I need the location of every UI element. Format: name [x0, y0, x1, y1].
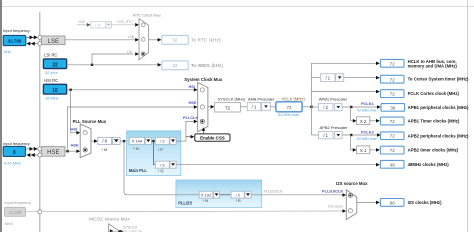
svg-text:12.288: 12.288	[9, 210, 22, 215]
svg-text:I2S clocks (MHz): I2S clocks (MHz)	[408, 200, 442, 205]
wire feed to PLLI2S (vertical)	[124, 141, 177, 195]
svg-text:Main PLL: Main PLL	[129, 168, 148, 173]
svg-text:/ 8: / 8	[102, 139, 107, 144]
RTC clock mux	[139, 19, 149, 60]
svg-text:PLLI2S: PLLI2S	[178, 201, 192, 206]
svg-text:X 192: X 192	[201, 193, 212, 198]
svg-text:HSI: HSI	[71, 127, 78, 132]
wire CKIN to pin	[25, 211, 37, 213]
svg-text:APB2 peripheral clocks (MHz): APB2 peripheral clocks (MHz)	[408, 133, 469, 138]
PLL source mux shape	[80, 124, 91, 158]
svg-text:32: 32	[173, 63, 178, 68]
wire bus to APB1	[312, 106, 319, 108]
LSE input frequency box	[3, 35, 26, 45]
pin I2S_CKIN	[38, 210, 42, 214]
wire divider to RTC mux	[111, 24, 136, 26]
svg-text:16: 16	[52, 88, 58, 94]
AHB prescaler dropdown	[247, 103, 260, 111]
wire bus to APB2	[312, 134, 319, 136]
svg-text:HSE: HSE	[189, 100, 197, 105]
svg-text:48MHz clocks (MHz): 48MHz clocks (MHz)	[408, 162, 450, 167]
svg-text:72: 72	[286, 105, 292, 110]
wire into MCO2 mux	[110, 229, 114, 232]
svg-text:8: 8	[13, 150, 16, 156]
svg-text:/ P: / P	[158, 147, 163, 152]
svg-text:LSE: LSE	[48, 39, 59, 45]
svg-text:84 MHz max: 84 MHz max	[357, 137, 377, 141]
system clock mux shape	[198, 83, 208, 132]
svg-text:72: 72	[390, 148, 395, 153]
svg-text:Ext clock: Ext clock	[328, 205, 343, 209]
svg-text:To Cortex System timer (MHz): To Cortex System timer (MHz)	[408, 76, 469, 81]
top panel border	[2, 6, 474, 7]
svg-text:APB1 Prescaler: APB1 Prescaler	[319, 96, 348, 101]
svg-text:32: 32	[52, 63, 58, 69]
wire X1 to output	[370, 149, 377, 151]
pin OSC32_OUT	[38, 42, 42, 46]
svg-text:HCLK (MHz): HCLK (MHz)	[282, 96, 306, 101]
wire HSE up to system mux	[68, 107, 195, 151]
wire to cortex prescaler	[312, 77, 321, 79]
svg-text:72: 72	[390, 61, 395, 66]
pin OSC32_IN	[38, 35, 42, 39]
svg-text:SYSCLK (MHz): SYSCLK (MHz)	[218, 96, 246, 101]
svg-text:APB1 Timer clocks (MHz): APB1 Timer clocks (MHz)	[408, 119, 460, 124]
svg-text:HSI: HSI	[189, 84, 196, 89]
wire PLLCLK to system mux	[176, 121, 194, 141]
junction PCLK2	[350, 134, 352, 136]
svg-text:HSE: HSE	[78, 20, 86, 24]
PLLI2S panel	[176, 180, 262, 207]
APB2 timer output box	[380, 146, 404, 154]
To IWDG output box	[162, 61, 188, 70]
wire LSI main	[67, 64, 159, 66]
svg-text:/ 1: / 1	[325, 76, 330, 81]
svg-text:To IWDG (kHz): To IWDG (kHz)	[191, 63, 223, 68]
svg-text:36: 36	[390, 105, 395, 110]
FCLK output box	[380, 90, 404, 98]
wire HSI to system mux	[67, 89, 195, 91]
Cortex timer output box	[380, 75, 404, 83]
wire feed into xN (over panel)	[176, 194, 199, 196]
LSI RC box	[43, 59, 66, 69]
svg-text:PLL Source Mux: PLL Source Mux	[73, 119, 107, 124]
wire HCLK to bus	[302, 106, 311, 108]
svg-text:/ 2: / 2	[160, 139, 165, 144]
svg-text:X 2: X 2	[360, 119, 367, 124]
multiplier xN (I2S)	[199, 191, 213, 198]
wire PCLK2 down to X1	[351, 135, 354, 150]
svg-text:72: 72	[390, 92, 395, 97]
svg-text:Input frequency: Input frequency	[3, 28, 30, 33]
svg-text:PLLI2SCLK: PLLI2SCLK	[322, 188, 343, 193]
svg-text:kHz: kHz	[4, 49, 11, 54]
RTC HSE divider /32	[91, 22, 106, 28]
wire X2 to output	[370, 120, 377, 122]
wire N to /Q	[153, 141, 155, 165]
APB2 prescaler dropdown	[319, 132, 333, 139]
svg-text:PCLK2: PCLK2	[361, 129, 375, 134]
wire PLL mux to /M	[91, 140, 94, 142]
HCLK AHB output box	[380, 59, 404, 67]
Main PLL panel	[127, 131, 181, 176]
wire PCLK1 down to X2	[351, 107, 354, 121]
svg-text:APB2 Prescaler: APB2 Prescaler	[320, 125, 349, 130]
wire ext clock to I2S mux	[42, 210, 343, 213]
svg-text:I2S source Mux: I2S source Mux	[336, 181, 368, 186]
svg-text:HSI RC: HSI RC	[44, 78, 58, 83]
svg-text:48: 48	[390, 162, 395, 167]
svg-text:/ 32: / 32	[95, 23, 101, 27]
APB1 timer output box	[380, 117, 404, 125]
svg-text:memory and DMA (MHz): memory and DMA (MHz)	[408, 64, 458, 69]
svg-text:AHB Prescaler: AHB Prescaler	[248, 96, 275, 101]
pin OSC_IN	[38, 147, 42, 151]
SYSCLK value box	[215, 103, 241, 112]
svg-text:72: 72	[390, 77, 395, 82]
junction N out	[152, 140, 154, 142]
svg-text:/ 2: / 2	[235, 193, 240, 198]
left panel edge	[0, 0, 2, 232]
HSI RC box	[43, 84, 66, 94]
wire to FCLK output	[312, 91, 377, 93]
svg-text:MCO2 source Mux: MCO2 source Mux	[89, 217, 130, 222]
divider /P	[155, 137, 169, 144]
svg-text:LSI RC: LSI RC	[44, 53, 57, 58]
wire LSE in arrows	[26, 36, 38, 38]
APB2 peripheral output box	[380, 132, 404, 140]
wire HSI down to PLL mux	[71, 90, 77, 133]
svg-text:72: 72	[390, 134, 395, 139]
wire SYSCLK to AHB prescaler	[240, 106, 247, 108]
APB1 peripheral output box	[381, 104, 405, 112]
To RTC output box	[162, 35, 188, 44]
svg-text:X 1: X 1	[360, 148, 367, 153]
bus vertical	[311, 63, 313, 135]
MCO2 mux shape (partial)	[108, 224, 118, 232]
divider /M	[98, 137, 112, 144]
svg-text:4-26 MHz: 4-26 MHz	[4, 160, 21, 165]
svg-text:32.768: 32.768	[8, 38, 22, 43]
48MHz output box	[380, 160, 404, 168]
wire HSE_RTC stub	[77, 24, 88, 26]
svg-text:APB2 timer clocks (MHz): APB2 timer clocks (MHz)	[408, 148, 459, 153]
svg-text:/ 1: / 1	[323, 133, 328, 138]
junction HSE	[66, 150, 68, 152]
wire LSI up to RTC mux	[92, 54, 134, 65]
MCO2 mux input circle (clipped)	[118, 230, 122, 234]
wire PLLI2SCLK to I2S mux	[251, 194, 343, 196]
svg-text:LSE: LSE	[128, 35, 135, 39]
divider /R	[231, 191, 244, 198]
svg-text:To RTC (kHz): To RTC (kHz)	[191, 37, 221, 42]
svg-text:/ 2: / 2	[323, 105, 328, 110]
svg-text:APB1 peripheral clocks (MHz): APB1 peripheral clocks (MHz)	[408, 105, 469, 110]
svg-text:System Clock Mux: System Clock Mux	[184, 77, 223, 82]
svg-text:HSE: HSE	[71, 143, 79, 148]
wire LSE to RTC mux	[65, 39, 137, 41]
svg-text:32 kHz: 32 kHz	[45, 70, 57, 75]
svg-text:PLLCLK: PLLCLK	[183, 115, 199, 120]
wire /Q to 48MHz	[176, 164, 377, 166]
svg-text:/ R: / R	[236, 198, 241, 203]
svg-text:42 MHz max: 42 MHz max	[357, 108, 377, 112]
HSE input frequency box	[3, 146, 25, 156]
right panel border	[467, 0, 468, 232]
svg-text:PLLI2SCLK: PLLI2SCLK	[123, 230, 143, 232]
wire HSE in arrows	[25, 148, 37, 150]
Enable CSS button	[195, 134, 230, 141]
svg-text:84 MHz max: 84 MHz max	[278, 113, 299, 117]
APB2 timer multiplier X1	[357, 146, 370, 154]
wire /M to PLL	[120, 140, 129, 142]
wire RTC mux to RTC box	[149, 39, 159, 41]
APB1 timer multiplier X2	[357, 117, 370, 125]
junction LSI	[91, 64, 93, 66]
pin OSC_OUT	[38, 153, 42, 157]
I2S output box	[380, 199, 404, 207]
junction HSI	[69, 89, 71, 91]
wire to HCLK AHB output	[312, 62, 377, 64]
svg-text:PLLI2SCLK: PLLI2SCLK	[264, 189, 284, 193]
svg-text:X 144: X 144	[132, 139, 143, 144]
HCLK value box	[276, 102, 302, 112]
svg-text:96: 96	[390, 201, 395, 206]
wire APB1 out	[342, 106, 377, 108]
APB1 prescaler dropdown	[319, 104, 333, 111]
svg-text:* N: * N	[133, 146, 139, 151]
svg-text:FCLK Cortex clock (MHz): FCLK Cortex clock (MHz)	[408, 91, 460, 96]
LSE oscillator box	[42, 36, 65, 45]
wire CSS to mux	[203, 131, 205, 134]
junction PLL feed	[123, 140, 125, 142]
svg-text:* N: * N	[203, 198, 209, 203]
svg-text:16 MHz: 16 MHz	[45, 96, 59, 101]
svg-text:72: 72	[225, 106, 231, 111]
wire cortex to output	[344, 77, 377, 79]
chip boundary line	[39, 12, 40, 232]
wire arrow into Enable CSS	[186, 136, 191, 138]
wire I2S mux to output	[357, 201, 377, 203]
svg-text:PCLK1: PCLK1	[361, 101, 375, 106]
svg-text:Enable CSS: Enable CSS	[200, 136, 225, 141]
junction PCLK1	[350, 106, 352, 108]
I2S source mux shape	[346, 190, 357, 220]
svg-text:72: 72	[390, 119, 395, 124]
wire xN to /R	[220, 194, 231, 196]
svg-text:Input frequency: Input frequency	[4, 200, 31, 205]
wire AHB to HCLK	[270, 106, 275, 108]
svg-text:/ 3: / 3	[160, 162, 165, 167]
I2S CKIN box (disabled)	[5, 207, 26, 216]
svg-text:Input frequency: Input frequency	[3, 141, 30, 146]
svg-text:/ 1: / 1	[252, 105, 257, 110]
svg-text:/ Q: / Q	[158, 168, 163, 173]
divider /Q	[155, 161, 169, 168]
svg-text:MHz: MHz	[5, 221, 13, 226]
cortex prescaler dropdown	[321, 74, 335, 82]
wire xN to /P	[151, 140, 155, 142]
svg-text:LSI: LSI	[127, 50, 132, 54]
svg-text:HSE_RTC: HSE_RTC	[117, 20, 133, 24]
wire HSE to PLL mux	[65, 150, 77, 152]
junction HCLK bus	[310, 106, 312, 108]
svg-text:32: 32	[173, 38, 178, 43]
HSE oscillator box	[42, 147, 65, 157]
arrow into IWDG box	[158, 63, 162, 67]
wire APB2 out	[342, 134, 377, 136]
wire sys mux to SYSCLK box	[208, 106, 211, 108]
svg-text:RTC Clock Mux: RTC Clock Mux	[133, 12, 161, 17]
multiplier xN	[129, 137, 144, 144]
svg-text:/ M: / M	[102, 147, 108, 152]
svg-text:HSE: HSE	[47, 150, 59, 156]
